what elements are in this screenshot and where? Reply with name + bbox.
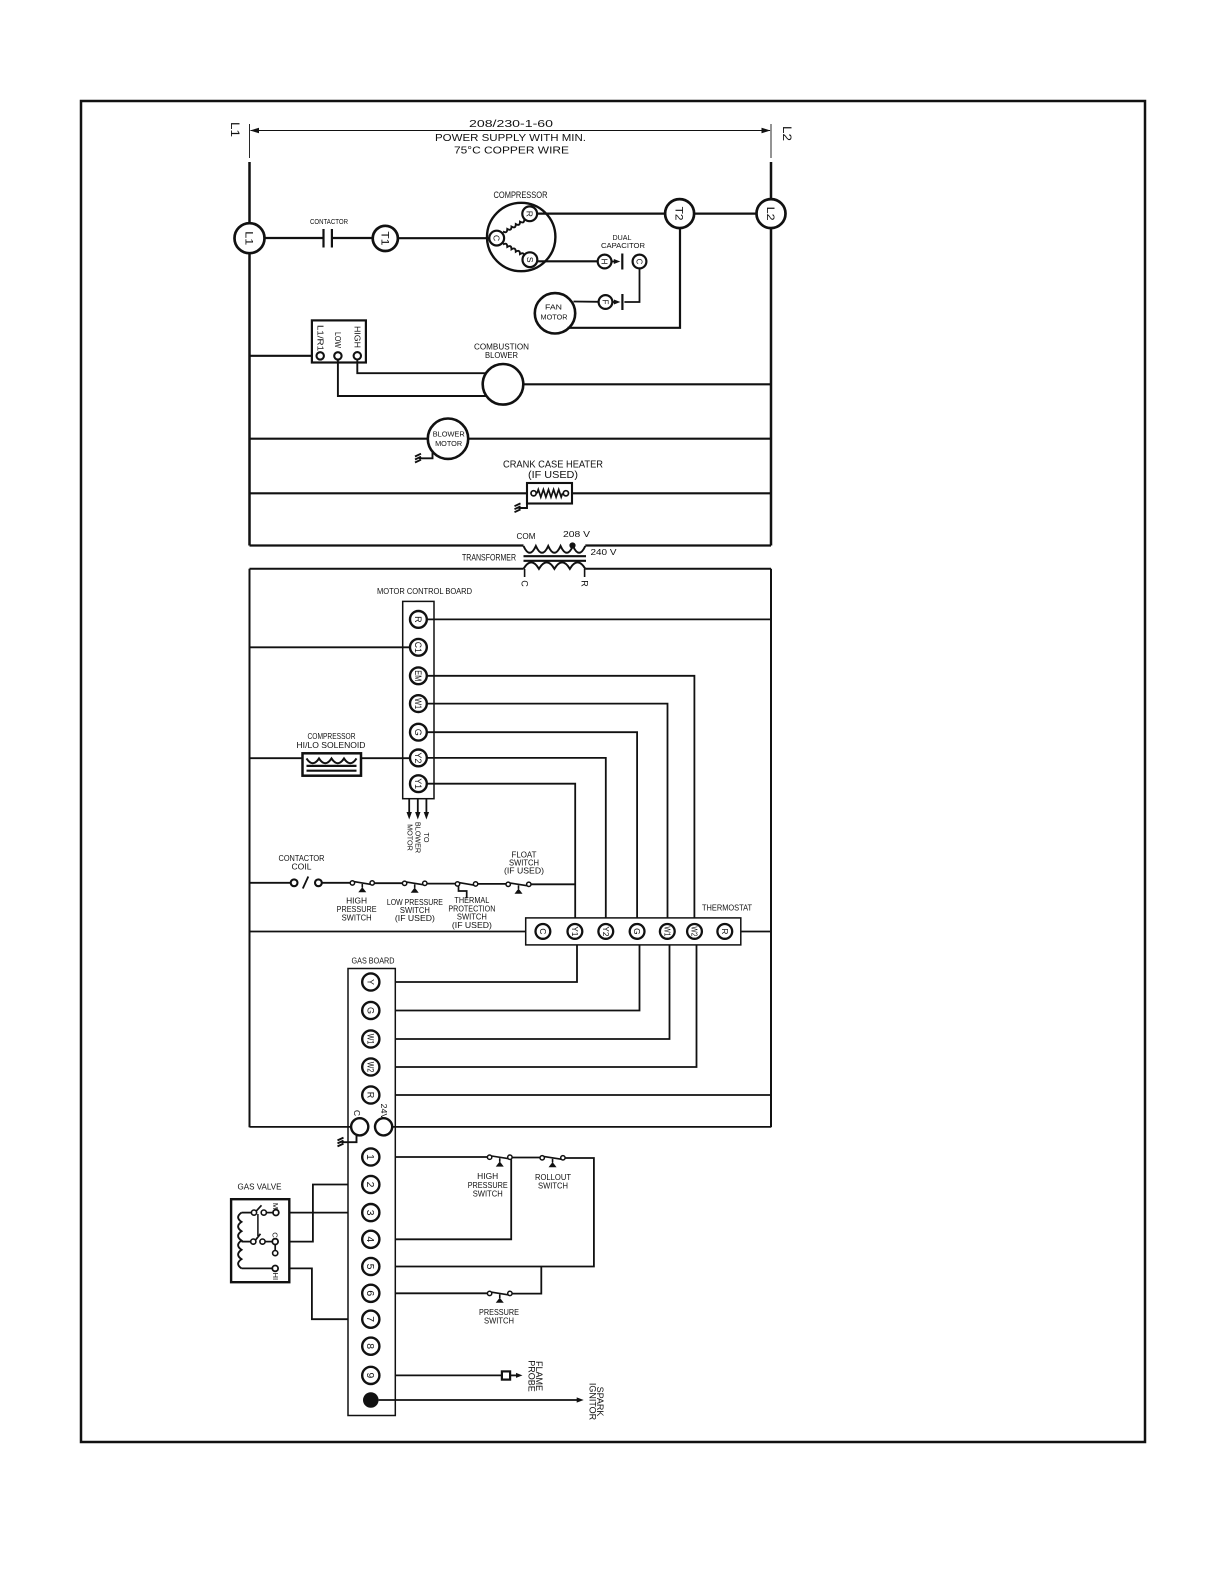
thermostat terminal W2 <box>687 924 702 939</box>
svg-text:HIGH: HIGH <box>353 326 362 348</box>
label spark ignitor <box>588 1383 605 1421</box>
gas board spark terminal <box>363 1392 379 1408</box>
gas board terminal 6 <box>362 1285 379 1302</box>
rollout switch <box>540 1156 544 1160</box>
thermostat terminal C <box>536 924 551 939</box>
wire board Y1 to thermostat Y1 <box>427 784 575 918</box>
gas board terminal 8 <box>362 1338 379 1355</box>
wire left bus to contactor coil <box>250 882 291 884</box>
svg-text:L1: L1 <box>243 231 255 245</box>
wire compressor S to capacitor H <box>537 260 597 262</box>
gas board terminal Y <box>362 973 379 990</box>
svg-text:208/230-1-60: 208/230-1-60 <box>469 118 553 130</box>
blower speed tap box <box>312 320 366 362</box>
svg-text:PRESSURE: PRESSURE <box>468 1181 508 1190</box>
wire contactor coil to high pressure switch <box>322 882 350 884</box>
wire fan motor to T2 <box>568 228 681 328</box>
terminal T1 <box>373 226 398 251</box>
compressor winding C-S <box>503 244 524 257</box>
wire L1 to transformer primary COM <box>250 544 524 546</box>
wire gas valve C to gas board 2 <box>278 1185 348 1242</box>
speed terminal L1/R1 <box>317 352 324 359</box>
wire spark terminal to spark ignitor <box>379 1399 578 1401</box>
wire board EM to thermostat W2 <box>427 676 695 918</box>
svg-text:L1/R1: L1/R1 <box>316 325 325 351</box>
svg-text:Y1: Y1 <box>413 778 423 789</box>
wire thermostat R to right bus <box>741 931 771 933</box>
wire float switch to Y1 node <box>531 883 575 885</box>
svg-text:W2: W2 <box>366 1062 376 1073</box>
wire thermostat W1 to gas board W1 <box>395 945 669 1039</box>
board terminal C1 <box>410 639 427 656</box>
board terminal Y1 <box>410 775 427 792</box>
high pressure switch (gas) <box>487 1155 491 1159</box>
svg-text:L2: L2 <box>780 126 794 141</box>
svg-text:IGNITOR: IGNITOR <box>588 1383 598 1421</box>
gas board terminal 7 <box>362 1311 379 1328</box>
wire secondary R to board right bus <box>585 568 771 570</box>
compressor hi/lo solenoid <box>303 753 362 775</box>
wire gas board 6 to pressure switch <box>395 1292 487 1294</box>
transformer secondary R stub <box>584 569 586 577</box>
wire L1 to blower motor <box>250 438 429 440</box>
wire secondary C to board left bus <box>250 568 524 570</box>
svg-text:MOTOR CONTROL BOARD: MOTOR CONTROL BOARD <box>377 586 472 596</box>
wire board R to right bus <box>427 618 771 620</box>
blower motor <box>428 419 468 459</box>
gas board terminal 9 <box>362 1367 379 1384</box>
svg-text:C: C <box>492 235 502 241</box>
svg-text:75°C COPPER WIRE: 75°C COPPER WIRE <box>454 144 569 156</box>
wire thermostat Y1 to gas board Y <box>395 945 577 982</box>
svg-text:SWITCH: SWITCH <box>342 913 372 922</box>
thermostat terminal G <box>630 924 645 939</box>
gas board terminal 24V <box>375 1118 392 1135</box>
svg-text:W2: W2 <box>690 926 700 936</box>
svg-text:HI/LO SOLENOID: HI/LO SOLENOID <box>297 741 366 750</box>
transformer secondary C stub <box>524 569 526 577</box>
wire T1 to compressor <box>398 237 490 239</box>
wire pressure switch to node 5 <box>512 1267 541 1294</box>
wire compressor R to T2 <box>537 213 665 215</box>
low pressure switch <box>402 881 406 885</box>
wire capacitor C to F plate <box>624 268 639 302</box>
svg-text:MOTOR: MOTOR <box>406 824 415 851</box>
wire L1 bus <box>248 162 251 546</box>
wire high pressure to rollout switch <box>512 1157 540 1159</box>
svg-text:R: R <box>579 580 589 587</box>
svg-text:1: 1 <box>364 1154 375 1160</box>
svg-text:(IF USED): (IF USED) <box>395 914 435 923</box>
compressor terminal C <box>489 231 504 246</box>
wire LOW to combustion blower <box>338 360 487 396</box>
compressor terminal S <box>523 252 538 267</box>
wire L1 to blower speed box <box>250 355 318 357</box>
capacitor plate top <box>612 261 618 263</box>
thermostat terminal Y1 <box>568 924 583 939</box>
wire L2 bus <box>770 162 773 546</box>
gas valve C contact <box>251 1239 256 1244</box>
terminal L2 <box>757 199 786 228</box>
wire solenoid to board Y2 <box>250 757 411 759</box>
wire fan motor to F <box>574 301 599 303</box>
wire crank case heater to L2 <box>572 492 771 494</box>
wire board Y2 to thermostat Y2 <box>427 758 606 918</box>
wire rollout switch to gas board 5 <box>395 1158 594 1267</box>
svg-text:COM: COM <box>517 531 536 541</box>
svg-text:CAPACITOR: CAPACITOR <box>601 241 646 250</box>
gas board terminal 2 <box>362 1176 379 1193</box>
svg-text:FAN: FAN <box>545 303 562 312</box>
svg-text:Y1: Y1 <box>570 926 580 936</box>
svg-text:240 V: 240 V <box>591 547 617 557</box>
wire L1 to crank case heater <box>250 492 528 494</box>
svg-text:H: H <box>600 259 609 265</box>
gas board terminal 5 <box>362 1258 379 1275</box>
svg-text:SWITCH: SWITCH <box>538 1182 568 1191</box>
compressor body <box>487 203 555 271</box>
svg-text:W1: W1 <box>366 1034 376 1045</box>
wire to thermal protection switch <box>427 883 455 885</box>
gas board terminal W1 <box>362 1030 379 1047</box>
svg-text:CONTACTOR: CONTACTOR <box>310 217 348 226</box>
svg-text:2: 2 <box>364 1182 375 1188</box>
wire gas valve HI to gas board 7 <box>278 1268 348 1319</box>
svg-text:EM: EM <box>413 670 423 681</box>
terminal L1 <box>235 223 265 253</box>
svg-text:5: 5 <box>364 1264 375 1270</box>
wire gas board 1 to high pressure switch <box>395 1156 487 1158</box>
crank case heater plug <box>519 504 528 509</box>
svg-text:GAS BOARD: GAS BOARD <box>352 956 395 966</box>
svg-text:GAS VALVE: GAS VALVE <box>238 1181 282 1191</box>
wire right board bus <box>770 569 772 1127</box>
svg-text:(IF USED): (IF USED) <box>452 921 492 930</box>
svg-text:Y: Y <box>366 979 376 985</box>
wire contactor to T1 <box>333 237 373 239</box>
svg-text:24V: 24V <box>379 1104 389 1120</box>
svg-text:C: C <box>519 580 529 587</box>
gas valve terminal C <box>272 1239 278 1245</box>
svg-text:MOTOR: MOTOR <box>541 313 568 322</box>
svg-text:PRESSURE: PRESSURE <box>479 1308 519 1317</box>
float switch <box>506 882 510 886</box>
svg-text:8: 8 <box>364 1343 375 1349</box>
board terminal Y2 <box>410 750 427 767</box>
dimension line <box>249 124 251 158</box>
svg-text:C: C <box>538 928 548 934</box>
wire thermostat W2 to gas board W2 <box>395 945 696 1067</box>
wire to float switch <box>478 883 506 885</box>
transformer primary winding <box>524 546 586 553</box>
wire thermostat G to gas board G <box>395 945 639 1011</box>
transformer 208V tap <box>569 542 575 548</box>
svg-text:PROBE: PROBE <box>527 1360 537 1392</box>
svg-text:4: 4 <box>364 1236 375 1242</box>
svg-text:(IF USED): (IF USED) <box>504 866 544 875</box>
compressor terminal R <box>522 206 537 221</box>
svg-text:9: 9 <box>364 1373 375 1379</box>
svg-text:COMPRESSOR: COMPRESSOR <box>494 190 548 201</box>
speed terminal LOW <box>334 352 341 359</box>
blower motor plug <box>419 453 433 459</box>
svg-text:L1: L1 <box>228 122 242 137</box>
combustion blower motor <box>483 364 524 405</box>
svg-text:(IF USED): (IF USED) <box>528 470 578 481</box>
transformer core <box>524 555 587 557</box>
gas valve M contact <box>251 1210 256 1215</box>
contactor contacts <box>322 229 324 248</box>
gas board terminal W2 <box>362 1058 379 1075</box>
wire transformer primary to L2 <box>585 544 771 546</box>
thermal protection switch <box>455 882 459 886</box>
svg-text:LOW: LOW <box>333 332 342 349</box>
motor control board strip <box>403 601 434 798</box>
board terminal W1 <box>410 695 427 712</box>
svg-text:BLOWER: BLOWER <box>485 351 518 360</box>
svg-text:G: G <box>413 729 423 736</box>
wire left bus to gas board C <box>250 1126 352 1128</box>
wire left bus to thermostat C <box>250 931 526 933</box>
svg-text:F: F <box>601 300 610 305</box>
label to blower motor <box>406 822 431 853</box>
gas valve terminal M <box>273 1210 279 1216</box>
capacitor terminal C <box>633 255 647 269</box>
pressure switch <box>487 1291 491 1295</box>
wire HIGH to combustion blower <box>357 360 486 374</box>
wire to low pressure switch <box>374 882 402 884</box>
svg-text:G: G <box>632 928 642 935</box>
svg-text:TRANSFORMER: TRANSFORMER <box>462 553 516 563</box>
speed terminal HIGH <box>354 352 361 359</box>
wire L1 to contactor <box>250 237 323 239</box>
terminal T2 <box>665 199 694 228</box>
flame probe <box>502 1371 510 1379</box>
label flame probe <box>527 1360 544 1392</box>
transformer secondary winding <box>524 562 586 568</box>
thermostat terminal Y2 <box>598 924 613 939</box>
svg-text:Y2: Y2 <box>413 752 423 763</box>
fan motor <box>535 293 575 333</box>
svg-text:208 V: 208 V <box>563 529 590 539</box>
wire gas board 24V to right bus <box>392 1126 771 1128</box>
svg-text:6: 6 <box>364 1290 375 1296</box>
svg-text:R: R <box>525 211 535 217</box>
board terminal EM <box>410 667 427 684</box>
wire combustion blower to L2 <box>523 383 771 385</box>
crank case heater resistor <box>527 483 572 504</box>
wire board C1 to left bus <box>250 646 411 648</box>
svg-text:POWER SUPPLY WITH MIN.: POWER SUPPLY WITH MIN. <box>435 132 586 144</box>
gas board terminal 3 <box>362 1204 379 1221</box>
gas board C plug <box>342 1135 357 1143</box>
wire gas board 9 to flame probe <box>395 1374 502 1376</box>
svg-text:W1: W1 <box>662 926 672 936</box>
svg-text:L2: L2 <box>764 207 776 221</box>
svg-text:7: 7 <box>364 1316 375 1322</box>
wire board W1 to thermostat W1 <box>427 704 668 918</box>
svg-text:C: C <box>271 1232 280 1238</box>
thermostat strip <box>526 918 741 945</box>
svg-text:SWITCH: SWITCH <box>484 1317 514 1326</box>
wire gas board R to right bus <box>395 1094 771 1096</box>
svg-text:BLOWER: BLOWER <box>433 430 465 439</box>
gas board terminal 1 <box>362 1148 379 1165</box>
wire left board bus <box>249 569 251 1127</box>
contactor coil <box>291 879 298 886</box>
svg-text:R: R <box>413 616 423 623</box>
gas board terminal C <box>351 1118 368 1135</box>
gas valve terminal HI <box>272 1266 278 1272</box>
thermostat terminal R <box>717 924 732 939</box>
svg-text:Y2: Y2 <box>601 926 611 936</box>
capacitor plate bottom <box>621 294 623 310</box>
gas board terminal R <box>362 1086 379 1103</box>
svg-text:C: C <box>635 259 644 265</box>
wire T2 to L2 <box>694 213 757 215</box>
gas board terminal 4 <box>362 1231 379 1248</box>
svg-text:T1: T1 <box>378 231 390 245</box>
gas valve <box>231 1199 289 1282</box>
svg-text:THERMOSTAT: THERMOSTAT <box>702 903 752 913</box>
compressor winding C-R <box>503 219 524 232</box>
svg-text:C1: C1 <box>413 642 423 653</box>
gas valve coil <box>242 1212 252 1214</box>
thermostat terminal W1 <box>660 924 675 939</box>
svg-text:HIGH: HIGH <box>477 1172 498 1181</box>
gas board terminal G <box>362 1002 379 1019</box>
arrows to blower motor <box>408 799 410 813</box>
capacitor terminal F <box>599 295 613 309</box>
gas board strip <box>348 969 395 1416</box>
gas valve link <box>257 1214 259 1236</box>
svg-text:COIL: COIL <box>292 862 313 871</box>
svg-text:COMPRESSOR: COMPRESSOR <box>308 732 356 741</box>
svg-text:T2: T2 <box>673 207 685 221</box>
svg-text:C: C <box>352 1110 362 1116</box>
svg-text:SWITCH: SWITCH <box>473 1190 503 1199</box>
svg-text:HI: HI <box>271 1273 280 1281</box>
svg-text:ROLLOUT: ROLLOUT <box>535 1173 571 1182</box>
capacitor terminal H <box>598 255 612 269</box>
high pressure switch <box>350 881 354 885</box>
board terminal G <box>410 724 427 741</box>
wire gas valve M to gas board 3 <box>279 1212 348 1214</box>
board terminal R <box>410 611 427 628</box>
svg-text:W1: W1 <box>413 698 423 709</box>
svg-text:3: 3 <box>364 1210 375 1216</box>
svg-text:CRANK CASE HEATER: CRANK CASE HEATER <box>503 460 603 471</box>
svg-text:M: M <box>271 1203 280 1209</box>
svg-text:S: S <box>525 257 535 263</box>
svg-text:MOTOR: MOTOR <box>435 439 462 448</box>
wire blower motor to L2 <box>468 438 771 440</box>
wire board G to thermostat G <box>427 732 637 918</box>
svg-text:G: G <box>366 1007 376 1014</box>
svg-text:R: R <box>720 928 730 934</box>
svg-text:R: R <box>366 1092 376 1099</box>
wire switch junction to gas board 4 <box>395 1159 511 1239</box>
